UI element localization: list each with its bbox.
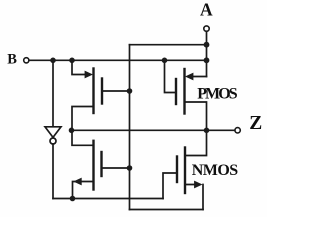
wire: A vertical xyxy=(206,31,208,76)
transistor Q3 bottom-left NMOS channel bar xyxy=(92,141,94,190)
junction dot Q3 gate xyxy=(127,165,133,171)
transistor Q4 bottom-right NMOS channel bar xyxy=(184,148,186,194)
wire: inverter output vertical xyxy=(52,144,54,199)
svg-text:A: A xyxy=(200,0,213,20)
wire: middle Z horizontal xyxy=(72,129,235,131)
svg-text:NMOS: NMOS xyxy=(192,162,238,179)
wire: Q2 drain lead to Z junction xyxy=(185,102,207,130)
transistor Q2 gate bar xyxy=(175,79,177,104)
transistor Q4 gate bar xyxy=(176,157,178,183)
transistor Q1 top-left PMOS channel bar xyxy=(92,69,94,114)
wire: bottom horizontal y=209.5 xyxy=(130,209,204,211)
wire: inverter input vertical xyxy=(52,60,54,126)
wire: Q4 drain lead up to Z junction xyxy=(185,130,207,155)
inverter U1 bubble xyxy=(50,138,56,144)
arrow Q3 source (points left away from channel) xyxy=(73,178,81,186)
junction dot Z line left xyxy=(69,128,75,134)
wire: Q3 gate lead xyxy=(102,167,130,169)
junction dot Bbar line xyxy=(70,196,76,202)
node Z terminal xyxy=(235,128,240,133)
wire: Q3 source lead with corner down to Bbar line xyxy=(73,182,94,199)
junction dot B-inverter xyxy=(50,58,56,64)
arrow Q2 source (points left into channel) xyxy=(185,73,193,81)
wire: NMOS gate vertical riser xyxy=(163,173,177,199)
wire: Q1 gate lead xyxy=(102,90,130,92)
wire: Q2 source lead from A vertical xyxy=(190,76,207,78)
node B terminal xyxy=(24,58,29,63)
junction dot top line at A vertical xyxy=(204,42,210,48)
arrow Q4 source (points right away from channel) xyxy=(194,181,202,189)
junction dot B-Q2 gate xyxy=(162,58,168,64)
transistor Q1 gate bar xyxy=(101,79,103,104)
node A terminal xyxy=(204,26,209,31)
junction dot B line at A vertical xyxy=(204,57,210,63)
wire: Q1 drain lead down-left xyxy=(72,107,94,146)
arrow Q1 source (points right into channel) xyxy=(85,71,93,79)
wire: Q2 gate lead from B line xyxy=(165,60,177,92)
wire: inverter-output horizontal (Bbar line) xyxy=(53,198,163,200)
wire: top horizontal (A to left column) xyxy=(130,44,207,46)
junction dot Q1 gate xyxy=(127,88,133,94)
svg-text:Z: Z xyxy=(249,112,262,134)
wire: Q4 source lead with corner to bottom rail xyxy=(185,185,203,210)
svg-text:PMOS: PMOS xyxy=(197,86,238,103)
junction dot Z line right xyxy=(204,128,210,134)
inverter U1 triangle xyxy=(45,127,61,138)
junction dot B-Q1 source xyxy=(69,58,75,64)
wire: B horizontal line xyxy=(29,59,207,61)
transistor Q3 gate bar xyxy=(100,152,102,176)
wire: left main vertical x=129.5 xyxy=(129,45,131,210)
transistor Q2 top-right PMOS channel bar xyxy=(183,69,185,114)
wire: Q1 source lead from B line xyxy=(72,60,88,74)
svg-text:B: B xyxy=(7,52,17,68)
